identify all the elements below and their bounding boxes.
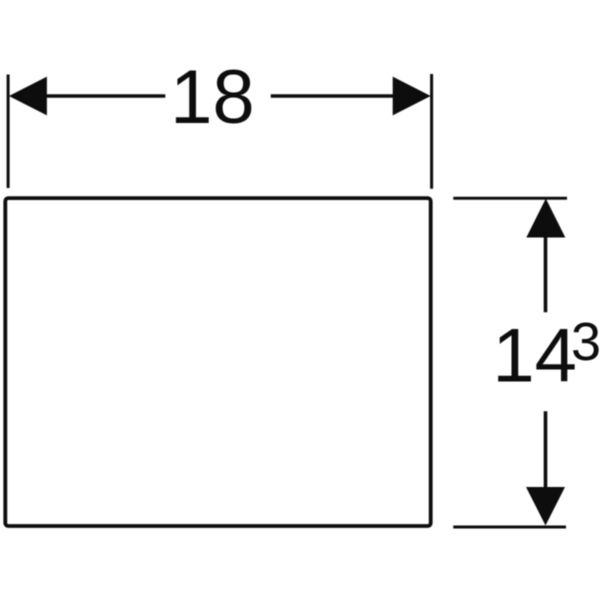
svg-text:18: 18 [170, 55, 255, 140]
svg-text:3: 3 [571, 312, 600, 372]
svg-text:14: 14 [492, 314, 577, 399]
